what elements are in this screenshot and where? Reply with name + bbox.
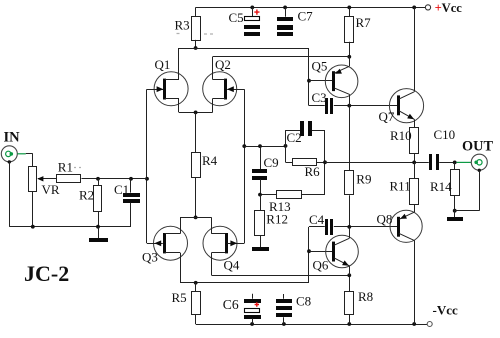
- svg-text:C4: C4: [309, 212, 325, 227]
- resistor R12: [255, 211, 265, 236]
- svg-text:OUT: OUT: [462, 139, 493, 155]
- wire C9 to R13: [260, 194, 277, 196]
- capacitor C10: [429, 154, 455, 170]
- wire R8 bottom stub: [349, 315, 351, 325]
- node R3 drain junction: [194, 46, 198, 50]
- node input-gate junction: [145, 177, 149, 181]
- node right gate tap: [242, 144, 246, 148]
- wire ground stub: [98, 227, 100, 239]
- wire input ground rail: [9, 226, 131, 228]
- node tail bottom: [194, 216, 198, 220]
- resistor R7: [345, 17, 354, 43]
- svg-text:R6: R6: [305, 164, 321, 179]
- node rail-C7: [283, 6, 287, 10]
- wire loop left vertical: [285, 130, 287, 162]
- wire VR top stub: [32, 154, 34, 167]
- capacitor C7: [277, 7, 293, 36]
- svg-text:R14: R14: [430, 179, 452, 194]
- svg-text:C2: C2: [287, 130, 302, 145]
- wire R11 top stub: [414, 162, 416, 178]
- wire IN to VR: [26, 153, 33, 155]
- resistor R5: [192, 292, 201, 315]
- wire +Vcc top rail: [196, 7, 426, 9]
- wire R14 top stub: [454, 162, 456, 169]
- svg-text:C10: C10: [434, 127, 456, 142]
- wire R5 top stub: [195, 283, 197, 292]
- node C1 top: [129, 177, 133, 181]
- node C4-Q6 junction: [347, 225, 351, 229]
- node R2 bottom: [96, 225, 100, 229]
- capacitor C2: [286, 121, 326, 136]
- capacitor C3: [309, 98, 333, 114]
- capacitor C6: [244, 294, 261, 324]
- wire -Vcc bottom rail: [196, 324, 427, 326]
- svg-text:Q5: Q5: [312, 59, 328, 74]
- svg-text:R4: R4: [202, 153, 218, 168]
- wire R10 bottom stub: [414, 154, 416, 163]
- node output junction: [412, 161, 416, 165]
- wire ground stub: [454, 211, 456, 218]
- svg-text:Q4: Q4: [224, 257, 240, 272]
- node Q5 base tap: [307, 79, 311, 83]
- svg-text:C8: C8: [296, 294, 311, 309]
- svg-text:R3: R3: [175, 18, 190, 33]
- capacitor C5: [244, 7, 260, 36]
- node R2 top: [96, 177, 100, 181]
- resistor R3: [192, 17, 201, 41]
- transistor Q4: [203, 217, 244, 275]
- wire R3 top stub: [195, 7, 197, 16]
- transistor Q3: [147, 217, 188, 282]
- node R6 output junction: [323, 160, 327, 164]
- svg-text:R8: R8: [358, 289, 373, 304]
- ground input: [89, 238, 108, 242]
- terminal -Vcc: [427, 322, 432, 327]
- svg-text:JC-2: JC-2: [24, 261, 69, 286]
- wire R6 left stub: [286, 162, 293, 164]
- wire x309 lower vertical: [308, 227, 310, 283]
- wire IN to VR green: [17, 153, 25, 155]
- node rail-R8: [347, 322, 351, 326]
- wire R9 bottom stub: [349, 195, 351, 227]
- wire R13 right stub: [302, 194, 325, 196]
- svg-text:R5: R5: [172, 290, 187, 305]
- wire OUT shield stem: [479, 170, 481, 210]
- svg-text:Vcc: Vcc: [442, 1, 463, 15]
- svg-text:R9: R9: [356, 171, 371, 186]
- svg-text:C7: C7: [298, 8, 314, 23]
- node R7-Q5 emitter: [347, 55, 351, 59]
- node Q6 emitter junction: [347, 273, 351, 277]
- node rail-C6: [250, 322, 254, 326]
- svg-text:C6: C6: [223, 297, 239, 312]
- resistor R4: [192, 153, 201, 178]
- resistor R11: [410, 179, 419, 205]
- node rail-C8: [282, 322, 286, 326]
- resistor R8: [345, 292, 354, 315]
- wire left gate line: [146, 89, 148, 243]
- svg-text:R10: R10: [390, 128, 412, 143]
- wire Q2 drain rail: [213, 56, 350, 58]
- wire R2 bottom stub: [98, 211, 100, 226]
- node rail-Q7: [412, 6, 416, 10]
- wire Q4 drain to Q6: [212, 275, 350, 277]
- wire C4 to Q8 base: [334, 226, 399, 228]
- transistor Q5: [325, 57, 358, 106]
- resistor R9: [345, 171, 354, 195]
- transistor Q2: [203, 57, 245, 113]
- capacitor C4: [309, 219, 333, 235]
- node R5 top: [194, 281, 198, 285]
- wire right gate line: [244, 89, 246, 243]
- wire C3 to Q7 base: [334, 105, 398, 107]
- svg-text:C9: C9: [264, 155, 279, 170]
- wire R7 bottom stub: [349, 42, 351, 57]
- wire vertical to Q5 base: [308, 48, 310, 106]
- svg-text:Q1: Q1: [155, 57, 171, 72]
- wire R12 top stub: [260, 195, 262, 211]
- wire R14 bottom stub: [454, 195, 456, 210]
- node C3-Q5 junction: [347, 104, 351, 108]
- svg-text:R12: R12: [266, 212, 288, 227]
- svg-text:Q7: Q7: [379, 109, 395, 124]
- node Q6 base tap: [307, 249, 311, 253]
- wire R8 top stub: [349, 275, 351, 291]
- ground R12: [252, 247, 269, 251]
- wire feedback to output: [325, 162, 429, 164]
- wire R3 bottom stub: [195, 40, 197, 48]
- node rail-R7: [347, 6, 351, 10]
- terminal IN: [1, 146, 17, 164]
- potentiometer VR: [29, 167, 37, 192]
- wire R4 bottom stub: [195, 178, 197, 217]
- wire R2 top stub: [98, 179, 100, 186]
- svg-text:IN: IN: [4, 130, 21, 146]
- svg-text:Q2: Q2: [215, 57, 231, 72]
- node loop left: [284, 144, 288, 148]
- node VR bottom: [31, 225, 35, 229]
- ground output: [447, 217, 463, 221]
- wire Q6 base: [309, 251, 333, 253]
- node tail top: [194, 111, 198, 115]
- wiper arrow: [38, 178, 57, 180]
- node rail-Q8: [412, 322, 416, 326]
- node C10-R14 junction: [453, 161, 457, 165]
- svg-text:Q3: Q3: [142, 249, 158, 264]
- svg-text:R7: R7: [356, 15, 372, 30]
- transistor Q7: [389, 7, 423, 127]
- wire gate to C9: [244, 146, 285, 148]
- wire R11 to Q8 emitter: [414, 204, 416, 212]
- svg-text:VR: VR: [42, 182, 60, 197]
- svg-text:C1: C1: [114, 182, 129, 197]
- node C9 bottom: [258, 193, 262, 197]
- wire R7 top stub: [349, 7, 351, 16]
- terminal +Vcc: [425, 5, 430, 10]
- wire R12 ground stub: [260, 236, 262, 247]
- capacitor C1: [123, 179, 140, 227]
- transistor Q8: [390, 210, 422, 324]
- resistor R1: [57, 175, 81, 183]
- wire IN terminal stem: [9, 162, 11, 227]
- wire to OUT green: [457, 161, 472, 163]
- wire source rail Q1-Q2: [179, 112, 213, 114]
- capacitor C9: [252, 146, 267, 195]
- resistor R14: [451, 170, 460, 196]
- wire Q5 base: [309, 80, 332, 82]
- wire tail bottom rail: [180, 217, 212, 219]
- svg-text:R11: R11: [390, 178, 411, 193]
- node rail-C5: [250, 6, 254, 10]
- svg-text:Q8: Q8: [377, 211, 393, 226]
- terminal OUT: [471, 154, 487, 172]
- transistor Q6: [326, 227, 359, 275]
- decor: [74, 34, 213, 168]
- svg-text:-Vcc: -Vcc: [433, 302, 458, 317]
- svg-text:R2: R2: [79, 187, 94, 202]
- resistor R6: [293, 159, 317, 166]
- resistor R2: [94, 186, 102, 212]
- wire loop right vertical: [324, 130, 326, 195]
- transistor Q1: [147, 48, 188, 112]
- resistor R13: [277, 191, 302, 199]
- resistor R10: [410, 128, 419, 154]
- wire VR bottom stub: [32, 191, 34, 227]
- node R14-OUT shield: [453, 209, 457, 213]
- svg-text:R1: R1: [58, 159, 73, 174]
- wire R6 right stub: [317, 162, 326, 164]
- node C9 top: [258, 144, 262, 148]
- wire drain node horizontal: [179, 48, 309, 50]
- wire OUT shield to ground: [455, 210, 480, 212]
- capacitor C8: [276, 294, 292, 324]
- svg-text:Q6: Q6: [313, 258, 329, 273]
- wire R4 top stub: [195, 112, 197, 153]
- wire Q5 collector to R9: [349, 106, 351, 171]
- svg-text:C5: C5: [229, 10, 244, 25]
- svg-text:C3: C3: [312, 90, 327, 105]
- wire lower node rail: [180, 282, 309, 284]
- wire R5 bottom stub: [195, 314, 197, 324]
- wire R1 to gates: [82, 178, 148, 180]
